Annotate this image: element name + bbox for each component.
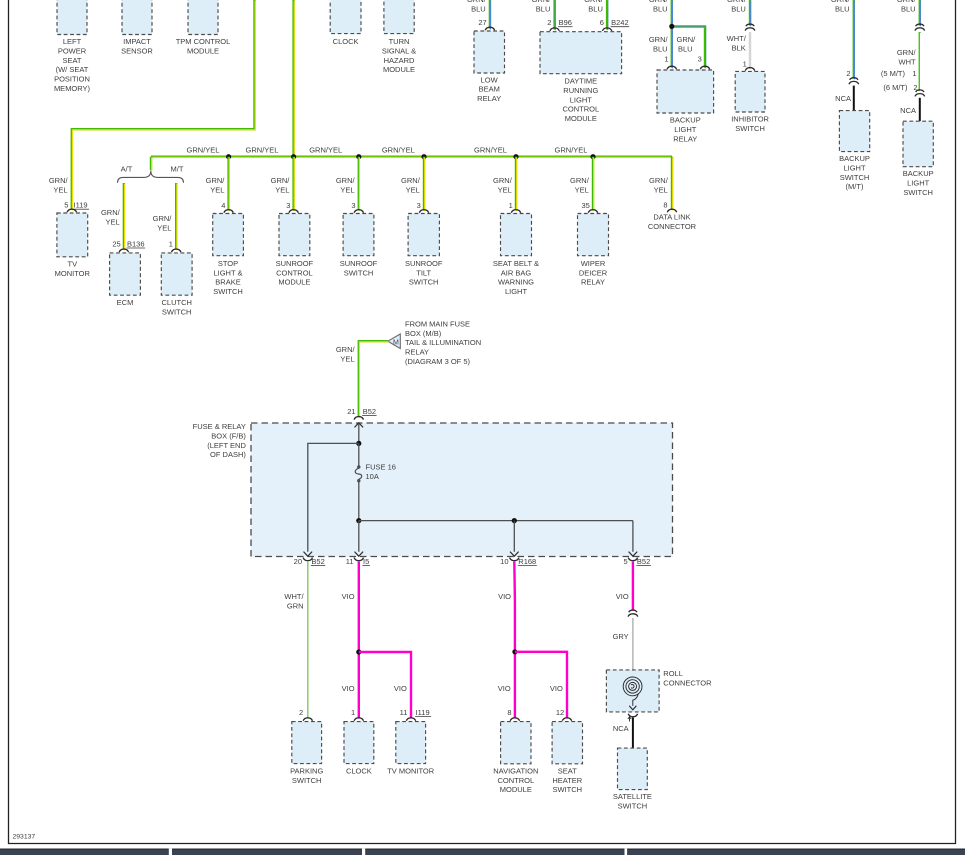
svg-text:SUNROOF: SUNROOF [405,259,443,268]
svg-text:6: 6 [600,18,604,27]
svg-text:RELAY: RELAY [673,134,697,143]
svg-text:YEL: YEL [498,185,512,194]
svg-text:B96: B96 [559,18,572,27]
svg-text:(6 M/T): (6 M/T) [883,83,908,92]
svg-text:1: 1 [664,54,668,63]
svg-text:1: 1 [169,239,173,248]
wire GRN/BLU to low beam relay [489,0,491,29]
svg-text:1: 1 [351,708,355,717]
svg-text:BLU: BLU [678,44,693,53]
svg-text:BLU: BLU [653,44,668,53]
inline connector pin 2 [849,78,859,85]
wire GRN/YEL bus right end to data link connector [671,157,673,210]
ECM box [110,253,141,295]
svg-text:GRN/YEL: GRN/YEL [187,145,220,154]
svg-text:GRY: GRY [613,632,629,641]
svg-text:3: 3 [351,201,355,210]
arrow into fuse box at pin 21 [355,423,364,428]
svg-text:VIO: VIO [342,592,355,601]
connector arc navigation module pin 8 [510,718,519,721]
svg-text:SATELLITE: SATELLITE [613,792,652,801]
svg-text:ROLL: ROLL [663,669,683,678]
svg-text:BACKUP: BACKUP [839,154,870,163]
svg-text:DATA LINK: DATA LINK [653,213,690,222]
connector arc [354,210,363,213]
junction node internal at x514.3 [512,518,517,523]
connector arc TV monitor pin 5 [67,209,76,212]
svg-text:2: 2 [547,18,551,27]
svg-text:WIPER: WIPER [581,259,606,268]
svg-text:BACKUP: BACKUP [670,116,701,125]
svg-text:35: 35 [581,201,589,210]
svg-text:SWITCH: SWITCH [344,268,374,277]
arrow pin 1 satellite wire [628,717,631,722]
svg-text:ECM: ECM [117,298,134,307]
svg-text:VIO: VIO [394,684,407,693]
svg-text:FUSE 16: FUSE 16 [366,463,396,472]
svg-text:WHT/: WHT/ [284,592,304,601]
sunroof switch box [343,214,374,256]
svg-text:POWER: POWER [58,46,87,55]
wire internal to pin 10 [513,521,515,552]
svg-text:(LEFT END: (LEFT END [207,441,246,450]
junction node VIO nav branch [512,649,517,654]
junction node backup relay wires [669,24,674,29]
svg-text:8: 8 [663,201,667,210]
svg-text:CONNECTOR: CONNECTOR [663,678,712,687]
svg-text:RUNNING: RUNNING [563,86,598,95]
svg-text:SWITCH: SWITCH [618,801,648,810]
junction node bus at x424 [421,154,426,159]
svg-text:GRN: GRN [287,602,304,611]
svg-text:(W/ SEAT: (W/ SEAT [56,65,89,74]
connector arc pin 11 [354,558,363,561]
svg-text:CONTROL: CONTROL [497,776,534,785]
daytime running light control module box [540,32,622,74]
svg-text:GRN/: GRN/ [649,176,669,185]
svg-text:CLUTCH: CLUTCH [161,298,191,307]
turn signal and hazard module connector box [384,0,414,34]
svg-text:8: 8 [507,708,511,717]
clutch switch box [161,253,192,295]
stop light & brake switch box [213,214,244,256]
junction node bus at x228.6 [226,154,231,159]
svg-text:IMPACT: IMPACT [123,37,151,46]
backup light switch (M/T) box [839,111,869,152]
svg-text:R168: R168 [518,557,536,566]
wire NCA to backup light switch [919,98,921,121]
svg-text:GRN/: GRN/ [336,176,356,185]
svg-text:SUNROOF: SUNROOF [340,259,378,268]
svg-text:YEL: YEL [654,185,668,194]
wire GRN/BLU to DRL module pin 2 [553,0,555,30]
svg-text:4: 4 [221,201,225,210]
svg-text:12: 12 [556,708,564,717]
svg-text:TURN: TURN [389,37,410,46]
seat heater switch box [552,722,582,764]
svg-text:GRN/: GRN/ [532,0,552,4]
svg-text:293137: 293137 [13,833,36,840]
wire GRY to roll connector [632,618,634,677]
svg-text:HAZARD: HAZARD [384,56,415,65]
svg-text:VIO: VIO [498,684,511,693]
connector arc [224,210,233,213]
wire GRN/YEL bus [151,155,672,157]
svg-text:RELAY: RELAY [477,94,501,103]
inline connector GRN/BLU to WHT/BLK [745,24,755,31]
wiper deicer relay box [578,214,609,256]
svg-text:YEL: YEL [53,185,67,194]
wire GRN/BLU from top to backup light relay [671,0,673,68]
wire GRN/YEL bus left end down to brace [150,157,152,171]
backup light relay box [657,70,714,113]
svg-text:TV MONITOR: TV MONITOR [387,766,435,775]
wire GRN/YEL drop to wiper deicer relay [592,157,594,211]
connector arc pin 5 [628,558,637,561]
parking switch box [292,722,322,764]
svg-text:TILT: TILT [416,268,431,277]
svg-text:5: 5 [64,201,68,210]
svg-text:WHT/: WHT/ [727,34,747,43]
connector arc sunroof control module [289,210,298,213]
svg-text:FROM MAIN FUSE: FROM MAIN FUSE [405,319,470,328]
connector arc relay pin 1 [667,66,676,69]
svg-text:PARKING: PARKING [290,766,323,775]
svg-text:NAVIGATION: NAVIGATION [493,766,538,775]
connector arc seat heater switch pin 12 [562,718,571,721]
svg-text:LIGHT &: LIGHT & [213,268,242,277]
svg-text:YEL: YEL [157,224,171,233]
svg-text:GRN/: GRN/ [649,35,669,44]
wire GRN/WHT to backup light switch [919,32,921,91]
TV monitor box [57,213,88,257]
svg-text:BOX (F/B): BOX (F/B) [211,431,246,440]
svg-text:2: 2 [299,708,303,717]
svg-text:DAYTIME: DAYTIME [564,77,597,86]
svg-text:A/T: A/T [121,164,133,173]
svg-text:SWITCH: SWITCH [553,785,583,794]
wire VIO from pin 10 [513,561,516,718]
wire internal branch right [359,520,633,522]
svg-text:DEICER: DEICER [579,268,608,277]
low beam relay box [474,31,505,73]
wire VIO branch to seat heater switch [515,652,567,718]
svg-text:LIGHT: LIGHT [843,163,866,172]
svg-text:HEATER: HEATER [552,776,582,785]
inline connector VIO to GRY [628,610,638,617]
wire GRN/YEL drop to sunroof control module [292,157,294,211]
wire GRN/YEL A/T branch to ECM [123,183,125,250]
inline connector backup switch [915,90,925,97]
svg-text:NCA: NCA [613,724,629,733]
sunroof tilt switch box [408,214,439,256]
wire GRN/BLU to inline connector [919,0,921,26]
svg-text:25: 25 [112,239,120,248]
svg-text:SWITCH: SWITCH [840,173,870,182]
wire NCA to satellite switch [632,718,634,749]
svg-text:SWITCH: SWITCH [292,776,322,785]
wire GRN/BLU to DRL module pin 6 [606,0,608,30]
svg-text:CLOCK: CLOCK [346,766,372,775]
svg-text:YEL: YEL [340,354,354,363]
svg-text:B242: B242 [611,18,629,27]
clock box (bottom) [344,722,374,764]
svg-text:1: 1 [912,69,916,78]
svg-text:TV: TV [68,260,78,269]
svg-text:GRN/YEL: GRN/YEL [555,145,588,154]
svg-text:GRN/: GRN/ [467,0,487,4]
wire GRN/BLU branch to relay pin 3 [672,26,705,67]
svg-text:LEFT: LEFT [63,37,82,46]
wire GRN/YEL drop to stop light & brake switch [227,157,229,211]
svg-text:YEL: YEL [340,185,354,194]
wire VIO from pin 11 [358,561,360,718]
svg-text:LIGHT: LIGHT [674,125,697,134]
svg-text:BEAM: BEAM [479,85,500,94]
connector arc ECM pin 25 [119,249,128,252]
svg-text:11: 11 [400,708,408,717]
roll connector box [606,670,659,712]
sunroof control module box [279,214,310,256]
svg-text:BLU: BLU [835,5,850,14]
svg-text:27: 27 [478,18,486,27]
left power seat connector box [57,0,87,35]
svg-text:INHIBITOR: INHIBITOR [731,115,769,124]
wire GRN/YEL M/T branch to clutch switch [175,183,177,250]
connector arc [511,210,520,213]
svg-text:BLU: BLU [901,5,916,14]
svg-text:VIO: VIO [498,592,511,601]
svg-text:RELAY: RELAY [581,278,605,287]
svg-text:GRN/YEL: GRN/YEL [474,145,507,154]
svg-text:MODULE: MODULE [278,278,310,287]
svg-text:1: 1 [509,201,513,210]
svg-text:M/T: M/T [171,164,184,173]
svg-text:BLK: BLK [732,44,746,53]
svg-text:SWITCH: SWITCH [409,278,439,287]
svg-text:SIGNAL &: SIGNAL & [382,46,416,55]
svg-text:B52: B52 [637,557,650,566]
junction node internal top [356,441,361,446]
svg-text:RELAY: RELAY [405,348,429,357]
svg-text:GRN/: GRN/ [271,176,291,185]
svg-text:CONTROL: CONTROL [276,268,313,277]
brace A/T M/T [118,171,184,183]
svg-text:GRN/: GRN/ [49,176,69,185]
svg-text:GRN/: GRN/ [401,176,421,185]
svg-text:STOP: STOP [218,259,238,268]
junction node VIO clock branch [356,649,361,654]
svg-text:21: 21 [347,407,355,416]
svg-text:WARNING: WARNING [498,278,534,287]
wire GRN/YEL drop to sunroof tilt switch [423,157,425,211]
wire WHT/GRN to parking switch [307,561,309,718]
svg-text:SWITCH: SWITCH [903,188,933,197]
svg-text:1: 1 [743,60,747,69]
svg-text:MEMORY): MEMORY) [54,84,91,93]
wire GRN/YEL bus feed from top [292,0,294,157]
svg-text:I119: I119 [74,201,88,210]
svg-text:I119: I119 [416,708,430,717]
connector arc parking switch pin 2 [303,718,312,721]
junction node bus at x593 [590,154,595,159]
inline connector GRN/BLU to GRN/WHT [915,24,925,31]
svg-text:YEL: YEL [275,185,289,194]
bottom toolbar [0,849,965,855]
svg-text:VIO: VIO [616,592,629,601]
svg-text:BOX (M/B): BOX (M/B) [405,329,442,338]
svg-text:BLU: BLU [588,5,603,14]
clock connector box (top) [330,0,361,34]
svg-text:GRN/: GRN/ [649,0,669,4]
svg-text:GRN/YEL: GRN/YEL [309,145,342,154]
svg-text:SENSOR: SENSOR [121,46,153,55]
svg-text:SEAT: SEAT [62,56,81,65]
svg-text:BLU: BLU [536,5,551,14]
svg-text:11: 11 [346,557,354,566]
connector arc [419,210,428,213]
svg-text:GRN/: GRN/ [897,48,917,57]
connector arc relay pin 3 [700,66,709,69]
wire GRN/BLU to inline connector [749,0,751,26]
svg-text:OF DASH): OF DASH) [210,450,246,459]
connector arc data link connector pin 8 [667,209,676,212]
svg-text:YEL: YEL [575,185,589,194]
connector arc low beam relay pin 27 [485,27,494,30]
svg-text:GRN/: GRN/ [336,345,356,354]
svg-text:3: 3 [698,54,702,63]
svg-text:3: 3 [286,201,290,210]
impact sensor connector box [122,0,152,35]
svg-text:2: 2 [846,69,850,78]
wire GRN/YEL from top to TV monitor [72,0,255,210]
satellite switch box [618,748,648,790]
connector arc DRL pin 6 [602,28,611,31]
wire GRN/YEL drop to sunroof switch [358,157,360,211]
svg-text:SWITCH: SWITCH [162,307,192,316]
wire NCA to backup light switch (M/T) [853,86,855,111]
seat belt & air bag warning light box [501,214,532,256]
svg-text:GRN/: GRN/ [831,0,851,4]
connector arc clock pin 1 [354,718,363,721]
wire internal to fuse 16 [358,443,360,466]
svg-text:GRN/: GRN/ [677,35,697,44]
svg-text:LIGHT: LIGHT [907,179,930,188]
inhibitor switch box [735,71,765,112]
svg-text:(DIAGRAM 3 OF 5): (DIAGRAM 3 OF 5) [405,357,471,366]
connector arc inhibitor pin 1 [745,68,754,71]
connector arc pin 10 [510,558,519,561]
svg-text:MODULE: MODULE [187,46,219,55]
svg-text:VIO: VIO [550,684,563,693]
svg-text:LIGHT: LIGHT [505,287,528,296]
svg-text:MODULE: MODULE [500,785,532,794]
junction node bus at x358.8 [356,154,361,159]
wire VIO branch to TV monitor [359,652,411,718]
svg-text:GRN/: GRN/ [153,214,173,223]
svg-text:GRN/: GRN/ [493,176,513,185]
svg-text:(M/T): (M/T) [846,182,864,191]
svg-text:BACKUP: BACKUP [903,169,934,178]
svg-text:GRN/: GRN/ [101,208,121,217]
svg-text:5: 5 [624,557,628,566]
svg-text:FUSE & RELAY: FUSE & RELAY [193,422,246,431]
connector arc pin 20 [303,558,312,561]
wire internal branch left to pin 20 [308,443,359,551]
wire VIO from pin 5 [632,561,634,610]
svg-text:BLU: BLU [471,5,486,14]
svg-text:YEL: YEL [210,185,224,194]
svg-text:GRN/: GRN/ [584,0,604,4]
wire internal to pin 11 [358,521,360,552]
svg-text:BLU: BLU [653,5,668,14]
connector arc DRL pin 2 [550,28,559,31]
source triangle M (from main fuse box) [388,334,401,349]
arrow out at pin 20 [304,552,313,557]
connector arc below roll connector [628,714,637,717]
svg-text:CONNECTOR: CONNECTOR [648,222,697,231]
svg-text:BLU: BLU [731,5,746,14]
svg-text:YEL: YEL [106,218,120,227]
connector arc TV monitor pin 11 [406,718,415,721]
svg-text:I5: I5 [363,557,369,566]
wire WHT/BLK to inhibitor switch [749,32,751,69]
svg-text:BRAKE: BRAKE [215,278,240,287]
junction node bus at x516 [513,154,518,159]
svg-text:B52: B52 [363,407,376,416]
svg-text:M: M [393,339,399,346]
svg-text:MODULE: MODULE [383,65,415,74]
svg-text:NCA: NCA [900,106,916,115]
svg-text:SWITCH: SWITCH [213,287,243,296]
svg-text:MONITOR: MONITOR [55,269,91,278]
svg-text:POSITION: POSITION [54,75,90,84]
svg-text:20: 20 [294,557,302,566]
svg-text:LIGHT: LIGHT [570,95,593,104]
svg-text:LOW: LOW [481,75,499,84]
wire internal to pin 5 [632,521,634,552]
junction node bus at x293.6 [291,154,296,159]
TV monitor box (bottom) [396,722,426,764]
fuse F16 10A [357,465,360,468]
svg-text:10A: 10A [366,472,379,481]
svg-text:GRN/: GRN/ [570,176,590,185]
arrow out at pin 10 [510,552,519,557]
arrow out at pin 5 [629,552,638,557]
roll connector spiral [623,677,642,706]
svg-text:GRN/YEL: GRN/YEL [382,145,415,154]
svg-text:B136: B136 [127,239,145,248]
wire internal below fuse [358,482,360,521]
svg-text:NCA: NCA [835,94,851,103]
svg-text:YEL: YEL [406,185,420,194]
svg-text:3: 3 [417,201,421,210]
svg-text:B52: B52 [311,557,324,566]
svg-text:CONTROL: CONTROL [562,105,599,114]
svg-text:SWITCH: SWITCH [735,124,765,133]
backup light switch box [903,121,933,167]
svg-text:10: 10 [500,557,508,566]
wire GRN/YEL drop to seat belt & air bag warning light [515,157,517,211]
svg-text:GRN/: GRN/ [897,0,917,4]
connector arc fuse box pin 21 [354,417,363,420]
svg-text:WHT: WHT [899,57,916,66]
connector arc [588,210,597,213]
svg-text:(5 M/T): (5 M/T) [881,69,906,78]
svg-text:CLOCK: CLOCK [333,37,359,46]
junction node internal lower [356,518,361,523]
svg-text:GRN/YEL: GRN/YEL [246,145,279,154]
